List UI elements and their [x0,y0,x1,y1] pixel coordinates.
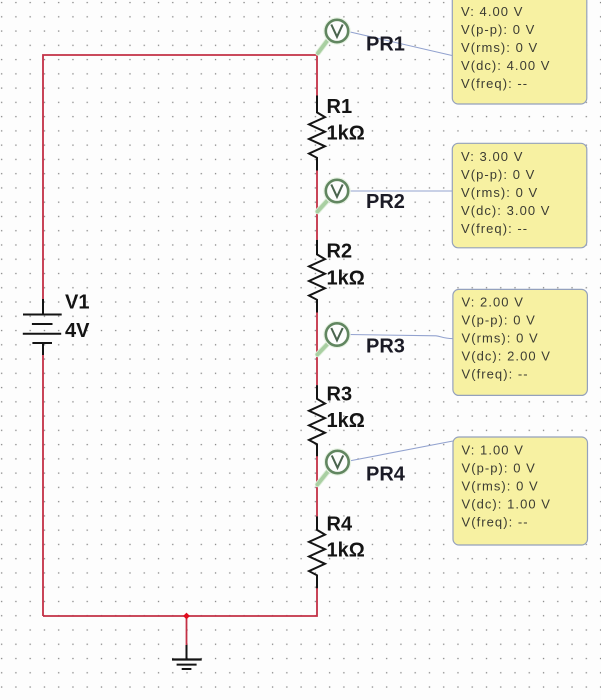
leader line PR1 [348,32,452,56]
svg-text:PR1: PR1 [366,34,405,56]
probe box PR2 [452,143,587,248]
svg-text:V(p-p): 0 V: V(p-p): 0 V [461,167,535,182]
resistor R2 [309,240,325,313]
wire: segment R1-R2 (node PR2) [316,170,318,240]
svg-text:V(rms): 0 V: V(rms): 0 V [462,479,539,494]
svg-text:V(p-p): 0 V: V(p-p): 0 V [461,22,535,37]
svg-text:R3: R3 [327,384,353,406]
probe PR2 [318,179,405,213]
probe PR3 [318,322,405,357]
svg-text:R1: R1 [327,96,353,118]
resistor R3 [309,385,325,456]
wire: segment R3-R4 (node PR4) [316,455,318,516]
svg-text:V(p-p): 0 V: V(p-p): 0 V [462,313,536,328]
svg-text:V(freq): --: V(freq): -- [462,367,529,382]
svg-text:V(dc): 4.00 V: V(dc): 4.00 V [461,58,551,73]
battery V1 [23,299,62,355]
svg-text:R2: R2 [327,241,353,263]
leader line PR3 [348,335,453,339]
wire: ground stub [186,616,188,645]
resistor R4 [309,516,325,588]
svg-text:V(freq): --: V(freq): -- [462,515,529,530]
wire: top horizontal (node V+) [43,55,317,299]
ground [172,645,202,669]
leader line PR4 [349,441,453,461]
probe box PR3 [453,289,588,395]
wire: right branch segment top (to R1) [316,55,318,96]
svg-text:V(rms): 0 V: V(rms): 0 V [462,331,539,346]
svg-text:V1: V1 [65,292,89,314]
wire: bottom horizontal (ground net) [43,587,317,616]
resistor R1 [309,96,325,171]
svg-text:4V: 4V [65,320,90,342]
svg-text:V: 2.00 V: V: 2.00 V [462,295,524,310]
svg-text:V: 3.00 V: V: 3.00 V [461,149,523,164]
svg-text:R4: R4 [327,514,353,536]
wire: left lower (battery minus to ground rail) [42,355,44,616]
svg-text:PR3: PR3 [366,336,405,358]
probe box PR1 [452,0,587,104]
svg-text:V(rms): 0 V: V(rms): 0 V [461,40,538,55]
svg-text:V: 4.00 V: V: 4.00 V [461,4,523,19]
junction (ground net) [183,613,190,620]
svg-text:V(rms): 0 V: V(rms): 0 V [461,185,538,200]
svg-text:V: 1.00 V: V: 1.00 V [462,443,524,458]
svg-text:V(p-p): 0 V: V(p-p): 0 V [462,461,536,476]
svg-text:1kΩ: 1kΩ [327,540,365,562]
probe PR4 [318,450,406,486]
svg-text:PR4: PR4 [366,464,406,486]
probe box PR4 [453,437,588,545]
svg-text:1kΩ: 1kΩ [327,268,365,290]
svg-text:PR2: PR2 [366,191,405,213]
leader line PR2 [348,190,452,192]
svg-text:1kΩ: 1kΩ [327,410,365,432]
svg-text:V(freq): --: V(freq): -- [461,221,528,236]
wire: segment R2-R3 (node PR3) [316,312,318,386]
svg-text:1kΩ: 1kΩ [327,123,365,145]
svg-text:V(dc): 3.00 V: V(dc): 3.00 V [461,203,551,218]
probe PR1 [318,19,405,56]
svg-text:V(dc): 2.00 V: V(dc): 2.00 V [462,349,552,364]
svg-text:V(freq): --: V(freq): -- [461,76,528,91]
svg-text:V(dc): 1.00 V: V(dc): 1.00 V [462,497,552,512]
